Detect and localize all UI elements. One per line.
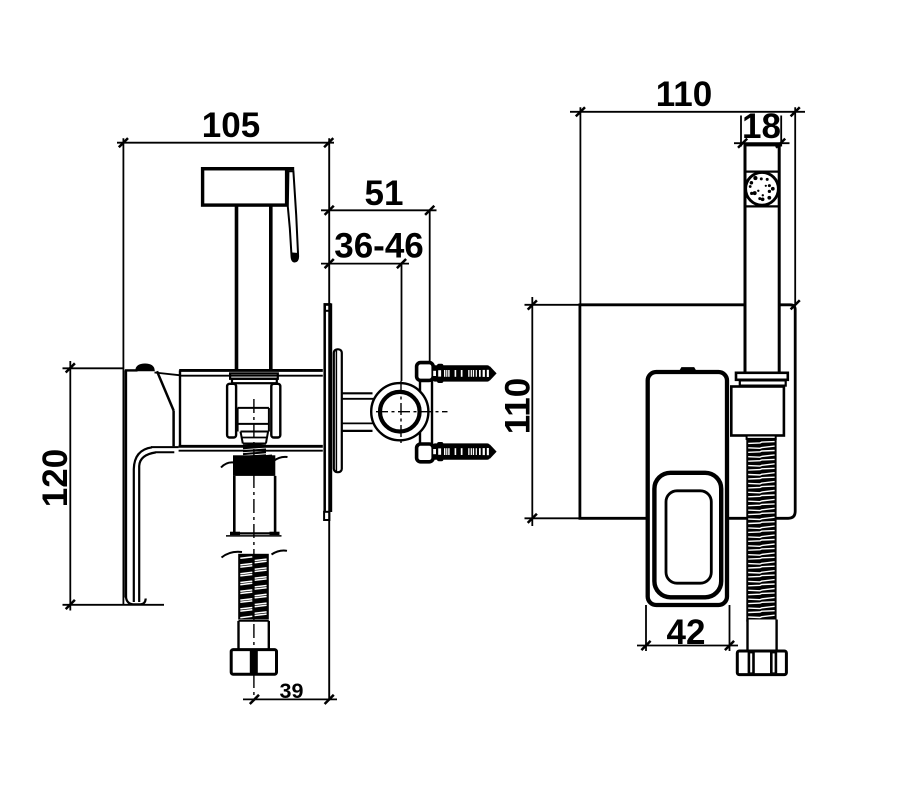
svg-text:18: 18: [742, 107, 781, 146]
svg-text:36-46: 36-46: [334, 227, 424, 266]
svg-text:110: 110: [656, 75, 712, 114]
svg-text:120: 120: [36, 449, 75, 507]
svg-text:39: 39: [280, 679, 304, 703]
svg-text:51: 51: [365, 174, 404, 213]
svg-text:42: 42: [667, 613, 706, 652]
svg-text:105: 105: [202, 106, 260, 145]
svg-text:110: 110: [499, 378, 538, 434]
